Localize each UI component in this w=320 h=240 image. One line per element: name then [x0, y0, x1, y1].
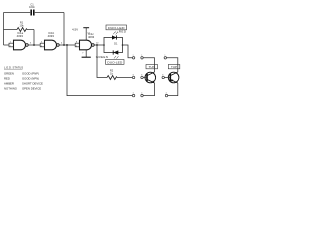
wire: loop exit to collector terminal — [123, 45, 133, 58]
svg-text:TUN: TUN — [149, 65, 155, 69]
svg-text:c: c — [165, 55, 166, 57]
svg-text:e: e — [133, 92, 135, 94]
node: C1 junction — [63, 44, 65, 46]
node: R2 junction — [96, 44, 98, 46]
svg-text:3: 3 — [30, 43, 32, 45]
node: loop entry — [103, 44, 105, 46]
svg-text:b: b — [141, 74, 143, 76]
node: R1 junction — [33, 44, 35, 46]
wire: R2 feed — [97, 45, 107, 78]
resistor R1 — [4, 21, 35, 32]
svg-text:c: c — [133, 55, 134, 57]
svg-text:10k: 10k — [19, 23, 24, 27]
legend L.E.D. STATUS — [4, 66, 43, 91]
node: emitter rail junction — [66, 44, 68, 46]
svg-text:GOOD (PNP): GOOD (PNP) — [22, 71, 39, 75]
terminal b (tester) — [132, 76, 134, 78]
NAND gate IC1c — [76, 32, 99, 50]
svg-text:4093: 4093 — [88, 35, 95, 39]
terminal e (tester) — [132, 94, 134, 96]
svg-text:DUO-LED: DUO-LED — [107, 60, 123, 64]
supply 4.5V to pin 14 — [72, 28, 91, 41]
terminal e (DUT T2) — [165, 94, 167, 96]
svg-text:SHORT DEVICE: SHORT DEVICE — [22, 81, 43, 85]
svg-text:4: 4 — [61, 43, 63, 45]
terminal c (tester) — [132, 57, 134, 59]
wire: R1 down to gate1 output node — [33, 30, 35, 46]
terminal b (DUT T2) — [162, 76, 164, 78]
wire: C1 down to gate2 output node — [63, 13, 65, 46]
svg-text:4093: 4093 — [17, 34, 24, 38]
svg-text:GREEN: GREEN — [4, 71, 14, 75]
svg-text:RED: RED — [4, 76, 10, 80]
svg-text:L.E.D. STATUS: L.E.D. STATUS — [4, 66, 23, 70]
transistor T2 TUP (PNP) — [164, 58, 179, 96]
LED D2 green (bottom) — [96, 50, 119, 58]
svg-text:b: b — [133, 74, 135, 76]
svg-text:NOTHING: NOTHING — [4, 86, 17, 90]
svg-text:100n: 100n — [29, 5, 35, 9]
LED D1 red (top) — [112, 30, 127, 40]
wire: IC1b out to IC1c in — [59, 44, 75, 46]
svg-text:TUP: TUP — [171, 65, 177, 69]
boxed label DUO-LED (bottom) — [106, 60, 125, 65]
svg-text:AMBER: AMBER — [4, 81, 14, 85]
wire: IC1c out to LED loop — [94, 44, 104, 46]
svg-text:b: b — [162, 74, 164, 76]
svg-text:GREEN: GREEN — [96, 55, 108, 59]
boxed label DUO-LED (top) — [106, 25, 127, 30]
wire: left feedback rail — [3, 13, 5, 46]
terminal c (DUT T2) — [164, 57, 166, 59]
terminal c (DUT T1) — [141, 57, 143, 59]
svg-text:7: 7 — [82, 52, 84, 54]
ground pin 7 — [82, 50, 91, 57]
NAND gate IC1b — [41, 31, 63, 50]
svg-text:4093: 4093 — [48, 34, 55, 38]
LED loop frame — [104, 38, 123, 53]
terminal e (DUT T1) — [141, 94, 143, 96]
svg-text:e: e — [166, 92, 168, 94]
svg-text:OPEN DEVICE: OPEN DEVICE — [22, 86, 41, 90]
input tie IC1c — [75, 43, 79, 47]
node: loop exit — [122, 44, 124, 46]
terminal b (DUT T1) — [141, 76, 143, 78]
svg-text:c: c — [141, 55, 142, 57]
NAND gate IC1a — [10, 31, 32, 50]
wire: into IC1a inputs — [4, 44, 10, 46]
wire: emitter rail down and across — [67, 45, 132, 96]
wire: IC1a out to IC1b in — [28, 44, 40, 46]
svg-text:4.5V: 4.5V — [72, 28, 78, 32]
svg-text:GOOD (NPN): GOOD (NPN) — [22, 76, 39, 80]
resistor R2 — [107, 69, 132, 80]
svg-text:D1: D1 — [114, 42, 118, 46]
svg-text:e: e — [141, 92, 143, 94]
input tie IC1b — [40, 43, 44, 47]
svg-text:DUO-LED: DUO-LED — [108, 26, 126, 30]
transistor T1 TUN (NPN) — [143, 58, 157, 96]
capacitor C1 — [4, 2, 65, 15]
svg-text:RED: RED — [119, 30, 127, 34]
input tie IC1a — [9, 43, 14, 47]
